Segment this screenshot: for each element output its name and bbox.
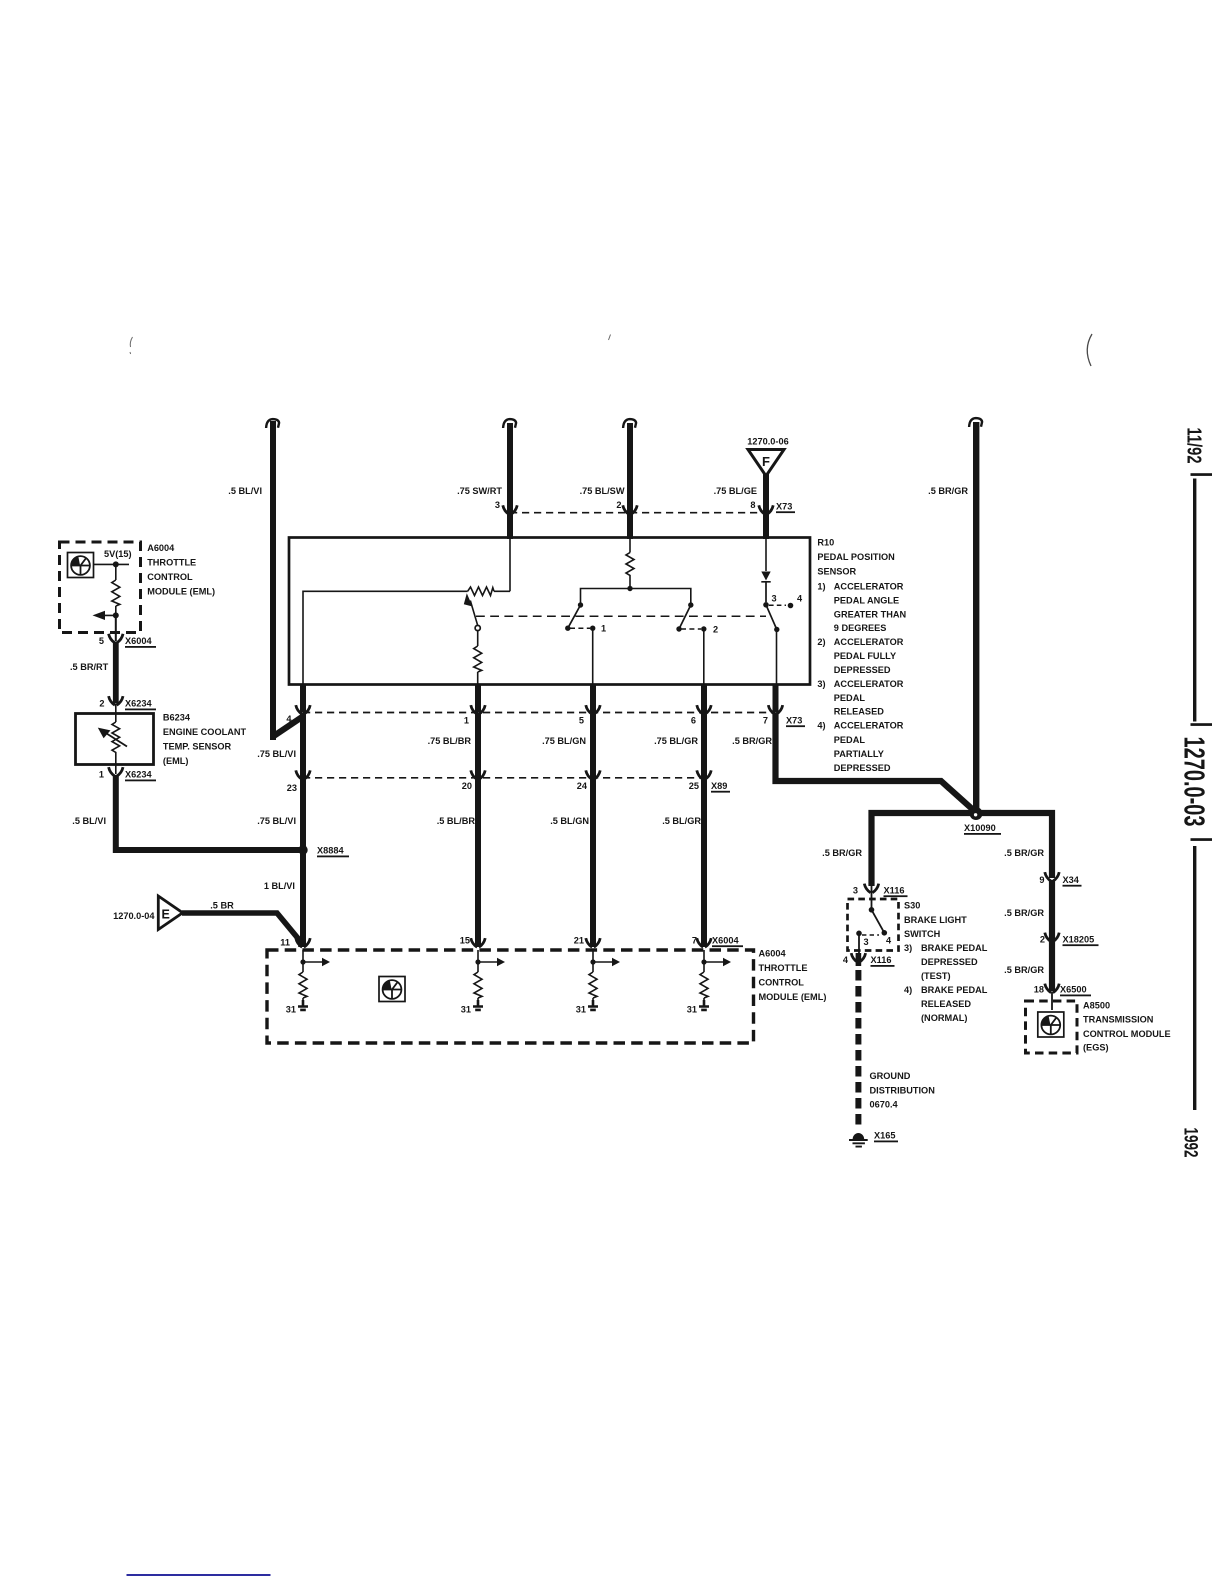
svg-text:.75 BL/GN: .75 BL/GN bbox=[542, 736, 586, 746]
label .75 BL/SW bbox=[580, 486, 625, 496]
svg-text:ACCELERATOR: ACCELERATOR bbox=[834, 581, 904, 591]
connector pin 11 X6004 bbox=[296, 938, 310, 947]
module icon A6004 top bbox=[68, 553, 94, 578]
B6234 wire into box bbox=[115, 704, 117, 722]
connector pin 5 X73 bbox=[586, 705, 600, 714]
switch 3 common contact dot bbox=[763, 602, 769, 608]
svg-text:6: 6 bbox=[691, 716, 696, 726]
svg-text:20: 20 bbox=[462, 781, 472, 791]
svg-text:31: 31 bbox=[286, 1005, 296, 1015]
svg-text:GROUND: GROUND bbox=[870, 1071, 911, 1081]
label pin 23 bbox=[287, 783, 297, 793]
svg-text:15: 15 bbox=[460, 936, 470, 946]
wire pin23 down to pin11 bbox=[300, 778, 306, 947]
svg-text:X10090: X10090 bbox=[964, 823, 996, 833]
mechanical coupling dashed line bbox=[476, 615, 766, 617]
svg-text:R10: R10 bbox=[817, 538, 834, 548]
margin tick 1 bbox=[1191, 473, 1213, 476]
S30 wire to common contact bbox=[869, 886, 875, 913]
connector pin 5 X6004 bbox=[109, 634, 123, 643]
B6234 NTC sensor symbol bbox=[98, 722, 127, 774]
svg-text:B6234: B6234 bbox=[163, 713, 191, 723]
svg-text:4: 4 bbox=[843, 955, 849, 965]
label .5 BL/VI bbox=[228, 486, 262, 496]
label .5 BL/BR bbox=[437, 816, 476, 826]
svg-text:1: 1 bbox=[601, 624, 606, 634]
margin tick 2 bbox=[1191, 723, 1213, 726]
wire .5 BL/VI to X8884 bbox=[116, 775, 300, 850]
svg-text:7: 7 bbox=[763, 716, 768, 726]
potentiometer resistor R10 bbox=[468, 587, 494, 596]
label X8884 bbox=[317, 846, 349, 858]
svg-text:X73: X73 bbox=[786, 716, 802, 726]
svg-text:.75 BL/GE: .75 BL/GE bbox=[714, 486, 757, 496]
label X89 bbox=[711, 781, 730, 793]
connector pin 7 X73 bbox=[768, 705, 782, 714]
label 1270.0-04 bbox=[113, 911, 155, 921]
svg-text:CONTROL: CONTROL bbox=[759, 978, 805, 988]
label pin 24 bbox=[577, 781, 588, 791]
switch 1 fixed contact dot bbox=[578, 602, 583, 607]
label pin 1 bbox=[464, 716, 469, 726]
label .5 BR/GR right branch 1 bbox=[1004, 848, 1044, 858]
svg-text:24: 24 bbox=[577, 781, 588, 791]
connector row X73 top dashed bbox=[510, 512, 766, 514]
label pin 1 X6234 bbox=[99, 770, 104, 780]
svg-text:.5 BR/RT: .5 BR/RT bbox=[70, 662, 109, 672]
svg-text:PEDAL: PEDAL bbox=[834, 693, 866, 703]
svg-text:X6004: X6004 bbox=[712, 936, 739, 946]
page margin label 11/92 bbox=[1183, 428, 1205, 464]
svg-text:DEPRESSED: DEPRESSED bbox=[834, 763, 891, 773]
svg-text:X18205: X18205 bbox=[1063, 934, 1095, 944]
connector pin 1 X73 bbox=[471, 705, 485, 714]
switch 1 arm bbox=[565, 605, 580, 631]
A6004 wire to pin 5 bbox=[115, 615, 117, 641]
wire .5 BR from E bbox=[182, 913, 301, 947]
svg-text:1 BL/VI: 1 BL/VI bbox=[264, 881, 295, 891]
svg-text:2: 2 bbox=[1040, 934, 1045, 944]
svg-text:X8884: X8884 bbox=[317, 846, 344, 856]
pin stub R10 pin7 bbox=[773, 685, 779, 713]
svg-text:4: 4 bbox=[797, 594, 803, 604]
connector pin 23 X89 bbox=[296, 770, 310, 779]
connector pin 2 X73 bbox=[623, 505, 637, 514]
A6004 bottom internal circuit pin15 bbox=[474, 950, 505, 1004]
pin stub R10 pin6 bbox=[701, 685, 707, 713]
label pin 20 bbox=[462, 781, 472, 791]
svg-text:11: 11 bbox=[280, 938, 290, 948]
svg-text:.75 BL/GR: .75 BL/GR bbox=[654, 736, 698, 746]
svg-text:X89: X89 bbox=[711, 781, 727, 791]
margin vertical rule lower bbox=[1193, 846, 1196, 1110]
wire pin4 to pin23 bbox=[300, 713, 306, 778]
label .75 SW/RT bbox=[457, 486, 502, 496]
label .75 BL/VI bbox=[257, 749, 296, 759]
A6004 internal resistor bbox=[112, 580, 120, 606]
wire pin25 to pin7 X6004 bbox=[701, 778, 707, 947]
svg-text:3): 3) bbox=[904, 943, 912, 953]
A6004 internal node dot with arrow bbox=[93, 606, 119, 620]
svg-text:TEMP. SENSOR: TEMP. SENSOR bbox=[163, 742, 232, 752]
label X73 top bbox=[776, 502, 795, 514]
label .5 BR/GR left branch bbox=[822, 848, 862, 858]
svg-text:GREATER THAN: GREATER THAN bbox=[834, 609, 907, 619]
label 31 fourth bbox=[687, 1005, 697, 1015]
svg-text:11/92: 11/92 bbox=[1183, 428, 1205, 464]
svg-text:X6234: X6234 bbox=[125, 699, 152, 709]
label 31 first bbox=[286, 1005, 296, 1015]
svg-text:DISTRIBUTION: DISTRIBUTION bbox=[870, 1085, 936, 1095]
label 31 second bbox=[461, 1005, 471, 1015]
svg-text:4: 4 bbox=[286, 714, 292, 724]
connector pin 4 X73 bbox=[296, 705, 310, 714]
label .5 BR/RT bbox=[70, 662, 109, 672]
svg-text:.5 BL/VI: .5 BL/VI bbox=[72, 816, 106, 826]
wire .75 SW/RT from top bbox=[507, 423, 513, 539]
wire X34 to X18205 bbox=[1049, 880, 1055, 940]
svg-text:ACCELERATOR: ACCELERATOR bbox=[834, 679, 904, 689]
switch 2 dashed link to contact 2 bbox=[681, 628, 701, 630]
label contact 3 bbox=[772, 594, 777, 604]
label X116 upper bbox=[884, 885, 908, 897]
label contact 2 bbox=[713, 625, 718, 635]
svg-text:MODULE (EML): MODULE (EML) bbox=[147, 587, 215, 597]
svg-text:.5 BR/GR: .5 BR/GR bbox=[928, 486, 968, 496]
ground 31 pin7 bbox=[699, 1000, 709, 1010]
S30 switch arm bbox=[872, 910, 888, 936]
connector pin 8 X73 bbox=[759, 505, 773, 514]
svg-text:RELEASED: RELEASED bbox=[921, 999, 971, 1009]
svg-text:.5 BL/BR: .5 BL/BR bbox=[437, 816, 476, 826]
module A6004 throttle control module box (top left) bbox=[60, 542, 141, 633]
svg-text:.5 BR/GR: .5 BR/GR bbox=[1004, 965, 1044, 975]
A6004 internal supply wire bbox=[94, 561, 129, 580]
svg-text:X6234: X6234 bbox=[125, 770, 152, 780]
connector pin 2 X6234 bbox=[109, 696, 123, 705]
wire pin24 to pin21 bbox=[590, 778, 596, 947]
label .5 BR/GR top right bbox=[928, 486, 968, 496]
wire end hook top .5 BL/VI bbox=[266, 419, 279, 428]
wire end hook top .75 BL/SW bbox=[623, 419, 636, 428]
svg-text:DEPRESSED: DEPRESSED bbox=[834, 665, 891, 675]
module A8500 transmission control module box bbox=[1026, 1001, 1078, 1053]
label 31 third bbox=[576, 1005, 586, 1015]
label .5 BR/GR right branch 2 bbox=[1004, 908, 1044, 918]
svg-text:.5 BL/GR: .5 BL/GR bbox=[662, 816, 701, 826]
svg-text:.5 BR/GR: .5 BR/GR bbox=[1004, 908, 1044, 918]
label .5 BL/GR bbox=[662, 816, 701, 826]
wire pin7 down to bend bbox=[776, 713, 976, 812]
svg-text:.75 BL/SW: .75 BL/SW bbox=[580, 486, 625, 496]
svg-text:.5 BR/GR: .5 BR/GR bbox=[732, 736, 772, 746]
S30 fixed contact 3 bbox=[856, 931, 862, 937]
svg-text:.5 BL/VI: .5 BL/VI bbox=[228, 486, 262, 496]
svg-text:A6004: A6004 bbox=[147, 543, 175, 553]
label .75 BL/VI lower bbox=[257, 816, 296, 826]
svg-text:.75 BL/BR: .75 BL/BR bbox=[428, 736, 472, 746]
switch 2 fixed contact dot bbox=[688, 602, 693, 607]
label pin 5 bbox=[579, 716, 584, 726]
svg-text:CONTROL: CONTROL bbox=[147, 572, 193, 582]
label X73 lower bbox=[786, 716, 805, 728]
switch 1 contact node 1 bbox=[590, 626, 595, 631]
connector pin 24 X89 bbox=[586, 770, 600, 779]
ground symbol X165 bbox=[849, 1133, 868, 1147]
svg-text:23: 23 bbox=[287, 783, 297, 793]
label X6234 lower bbox=[125, 770, 156, 782]
svg-text:CONTROL MODULE: CONTROL MODULE bbox=[1083, 1029, 1171, 1039]
svg-text:PARTIALLY: PARTIALLY bbox=[834, 749, 884, 759]
S30 dashed link bbox=[862, 934, 879, 936]
wire pin5 to pin24 bbox=[590, 713, 596, 778]
wire contact1 to pin5 bbox=[592, 628, 594, 683]
svg-text:1270.0-04: 1270.0-04 bbox=[113, 911, 155, 921]
connector pin 7 X6004 bbox=[697, 938, 711, 947]
svg-text:2: 2 bbox=[99, 699, 104, 709]
connector row X89 dashed bbox=[303, 777, 704, 779]
svg-text:PEDAL ANGLE: PEDAL ANGLE bbox=[834, 595, 899, 605]
svg-text:.5 BL/GN: .5 BL/GN bbox=[550, 816, 589, 826]
pin stub R10 pin5 bbox=[590, 685, 596, 713]
pin stub R10 pin1 bbox=[475, 685, 481, 713]
svg-text:21: 21 bbox=[574, 936, 584, 946]
svg-text:1992: 1992 bbox=[1180, 1128, 1201, 1158]
svg-text:MODULE (EML): MODULE (EML) bbox=[759, 992, 827, 1002]
A6004 bottom internal circuit pin11 bbox=[299, 950, 330, 1004]
svg-text:BRAKE PEDAL: BRAKE PEDAL bbox=[921, 943, 988, 953]
A6004 text block bottom bbox=[759, 949, 827, 1003]
wiper open contact circle bbox=[475, 625, 480, 630]
wire .5 BL/VI from top bbox=[270, 421, 302, 740]
svg-text:1: 1 bbox=[99, 770, 104, 780]
svg-text:31: 31 bbox=[576, 1005, 586, 1015]
label .75 BL/GE bbox=[714, 486, 757, 496]
svg-text:2: 2 bbox=[713, 625, 718, 635]
margin tick 3 bbox=[1191, 838, 1213, 841]
pin stub R10 pin4 bbox=[300, 685, 306, 713]
svg-text:5V(15): 5V(15) bbox=[104, 549, 132, 559]
label .5 BR/GR pin7 bbox=[732, 736, 772, 746]
svg-text:2): 2) bbox=[817, 637, 825, 647]
margin vertical rule upper bbox=[1193, 479, 1196, 722]
svg-text:PEDAL FULLY: PEDAL FULLY bbox=[834, 651, 896, 661]
wire pin20 to pin15 bbox=[475, 778, 481, 947]
svg-text:0670.4: 0670.4 bbox=[870, 1100, 899, 1110]
svg-text:4: 4 bbox=[886, 936, 892, 946]
R10 text block bbox=[817, 538, 906, 773]
label X34 bbox=[1063, 875, 1082, 887]
potentiometer wiper arm with arrow bbox=[464, 593, 478, 625]
switch 2 contact node 2 bbox=[701, 626, 706, 631]
label contact 1 bbox=[601, 624, 606, 634]
svg-text:3: 3 bbox=[495, 500, 500, 510]
wire pin6 to pin25 bbox=[701, 713, 707, 778]
diode D1 on pin 8 branch bbox=[761, 539, 770, 602]
switch 2 arm bbox=[676, 605, 691, 632]
label pin 25 bbox=[689, 781, 699, 791]
label ground distribution bbox=[870, 1071, 936, 1110]
connector pin 2 X18205 bbox=[1045, 933, 1059, 942]
label .5 BL/VI left bbox=[72, 816, 106, 826]
svg-text:E: E bbox=[162, 908, 170, 922]
connector pin 18 X6500 bbox=[1045, 984, 1059, 993]
connector pin 3 X73 bbox=[503, 505, 517, 514]
svg-text:(EML): (EML) bbox=[163, 756, 189, 766]
wire X10090 left branch bbox=[872, 813, 977, 886]
svg-text:X116: X116 bbox=[871, 955, 892, 965]
label pin 15 bbox=[460, 936, 470, 946]
svg-text:9 DEGREES: 9 DEGREES bbox=[834, 623, 887, 633]
dashed wire to ground distribution bbox=[855, 970, 861, 1128]
sensor B6234 box bbox=[76, 714, 154, 765]
label 5V(15) bbox=[104, 549, 132, 559]
svg-text:PEDAL POSITION: PEDAL POSITION bbox=[817, 552, 895, 562]
label S30 contact 4 bbox=[886, 936, 892, 946]
label .5 BR bbox=[210, 901, 234, 911]
svg-text:2: 2 bbox=[616, 500, 621, 510]
svg-text:1: 1 bbox=[464, 716, 469, 726]
R10 pedal position sensor box bbox=[289, 538, 810, 685]
svg-text:ENGINE COOLANT: ENGINE COOLANT bbox=[163, 727, 247, 737]
label pin 18 bbox=[1034, 985, 1044, 995]
label pin 9 bbox=[1039, 875, 1044, 885]
label .75 BL/GN bbox=[542, 736, 586, 746]
label .75 BL/GR bbox=[654, 736, 698, 746]
label pin 2 bbox=[616, 500, 621, 510]
label pin 3 X116 bbox=[853, 885, 858, 895]
label X165 bbox=[874, 1131, 898, 1143]
label S30 contact 3 bbox=[864, 937, 869, 947]
wire switch3 to pin7 bbox=[776, 630, 778, 684]
svg-text:3: 3 bbox=[772, 594, 777, 604]
svg-text:(TEST): (TEST) bbox=[921, 971, 951, 981]
A8500 text block bbox=[1083, 1001, 1171, 1053]
ground 31 pin21 bbox=[588, 1000, 598, 1010]
wire contact2 to pin6 bbox=[703, 629, 705, 684]
label pin 2 X6234 bbox=[99, 699, 104, 709]
switch S30 brake light switch box bbox=[848, 899, 899, 951]
wire X18205 to X6500 bbox=[1049, 940, 1055, 991]
svg-text:25: 25 bbox=[689, 781, 699, 791]
connector pin 21 X6004 bbox=[586, 938, 600, 947]
svg-text:RELEASED: RELEASED bbox=[834, 706, 884, 716]
connector pin 6 X73 bbox=[697, 705, 711, 714]
wire pin1 to pin20 bbox=[475, 713, 481, 778]
module icon A6004 bottom bbox=[379, 977, 405, 1002]
connector pin 20 X89 bbox=[471, 770, 485, 779]
label X10090 bbox=[964, 823, 1001, 835]
label pin 5 X6004 bbox=[99, 636, 104, 646]
svg-text:5: 5 bbox=[99, 636, 104, 646]
switch 1 dashed link to contact 1 bbox=[570, 627, 590, 629]
svg-text:(NORMAL): (NORMAL) bbox=[921, 1013, 967, 1023]
svg-text:SWITCH: SWITCH bbox=[904, 929, 941, 939]
svg-text:F: F bbox=[762, 454, 770, 469]
svg-text:1): 1) bbox=[817, 581, 825, 591]
svg-text:5: 5 bbox=[579, 716, 584, 726]
svg-text:DEPRESSED: DEPRESSED bbox=[921, 957, 978, 967]
off-page triangle F 1270.0-06 bbox=[748, 450, 784, 477]
svg-text:(EGS): (EGS) bbox=[1083, 1043, 1109, 1053]
svg-text:BRAKE LIGHT: BRAKE LIGHT bbox=[904, 915, 967, 925]
scan artifact left mark bbox=[130, 337, 133, 354]
label X6234 upper bbox=[125, 699, 156, 711]
wire .5 BR/RT bbox=[113, 642, 119, 704]
svg-text:.5 BR/GR: .5 BR/GR bbox=[1004, 848, 1044, 858]
A6004 bottom internal circuit pin21 bbox=[589, 950, 620, 1004]
svg-text:3: 3 bbox=[853, 885, 858, 895]
svg-text:X73: X73 bbox=[776, 502, 792, 512]
svg-text:X165: X165 bbox=[874, 1131, 895, 1141]
connector pin 4 X116 bbox=[851, 953, 865, 962]
wire end hook top .5 BR/GR bbox=[969, 418, 982, 427]
svg-text:ACCELERATOR: ACCELERATOR bbox=[834, 637, 904, 647]
page margin label 1992 bbox=[1180, 1128, 1201, 1158]
svg-text:.75 BL/VI: .75 BL/VI bbox=[257, 816, 296, 826]
label contact 4 bbox=[797, 594, 803, 604]
label pin 21 bbox=[574, 936, 584, 946]
scan artifact middle mark bbox=[609, 335, 611, 341]
svg-text:X116: X116 bbox=[884, 885, 905, 895]
svg-text:18: 18 bbox=[1034, 985, 1044, 995]
label X116 lower bbox=[871, 955, 895, 967]
svg-text:4): 4) bbox=[904, 985, 912, 995]
connector pin 15 X6004 bbox=[471, 938, 485, 947]
A6004 text block top bbox=[147, 543, 215, 597]
connector row X73 lower dashed bbox=[303, 712, 776, 714]
wire X10090 right branch bbox=[976, 813, 1052, 878]
svg-text:X34: X34 bbox=[1063, 875, 1080, 885]
module icon A8500 bbox=[1038, 1012, 1064, 1037]
svg-text:3: 3 bbox=[864, 937, 869, 947]
R10 inner junction dot pin2 bbox=[627, 586, 632, 591]
module A6004 throttle control module box (bottom) bbox=[267, 950, 754, 1043]
label pin 6 bbox=[691, 716, 696, 726]
label X18205 bbox=[1063, 934, 1099, 946]
switch 3 contact node 4 bbox=[788, 603, 794, 609]
connector pin 1 X6234 bbox=[109, 767, 123, 776]
svg-text:X6004: X6004 bbox=[125, 636, 152, 646]
wire .75 BL/GE from F bbox=[763, 474, 769, 539]
svg-text:.75 SW/RT: .75 SW/RT bbox=[457, 486, 502, 496]
svg-text:THROTTLE: THROTTLE bbox=[759, 963, 808, 973]
R10 inner resistor on pin 2 branch bbox=[626, 539, 634, 589]
R10 inner wire pin3 to potentiometer bbox=[303, 539, 510, 684]
svg-text:1270.0-03: 1270.0-03 bbox=[1178, 737, 1210, 827]
svg-text:S30: S30 bbox=[904, 901, 920, 911]
B6234 text block bbox=[163, 713, 247, 767]
ground 31 pin11 bbox=[298, 1000, 308, 1010]
wire .75 BL/SW from top bbox=[627, 423, 633, 539]
label pin 7 X6004 bbox=[692, 936, 697, 946]
label pin 4 bbox=[286, 714, 292, 724]
svg-text:BRAKE PEDAL: BRAKE PEDAL bbox=[921, 985, 988, 995]
scan artifact parenthesis bbox=[1087, 334, 1092, 366]
connector pin 25 X89 bbox=[697, 770, 711, 779]
svg-text:PEDAL: PEDAL bbox=[834, 735, 866, 745]
svg-text:A8500: A8500 bbox=[1083, 1001, 1110, 1011]
label X6004 bbox=[125, 636, 156, 648]
svg-text:31: 31 bbox=[687, 1005, 697, 1015]
switch 3 dashed link to contact 4 bbox=[769, 604, 786, 606]
svg-text:9: 9 bbox=[1039, 875, 1044, 885]
connector pin 3 X116 bbox=[864, 884, 878, 893]
bottom blue rule bbox=[127, 1574, 271, 1576]
svg-text:THROTTLE: THROTTLE bbox=[147, 558, 196, 568]
connector pin 9 X34 bbox=[1045, 872, 1059, 881]
svg-text:TRANSMISSION: TRANSMISSION bbox=[1083, 1015, 1154, 1025]
